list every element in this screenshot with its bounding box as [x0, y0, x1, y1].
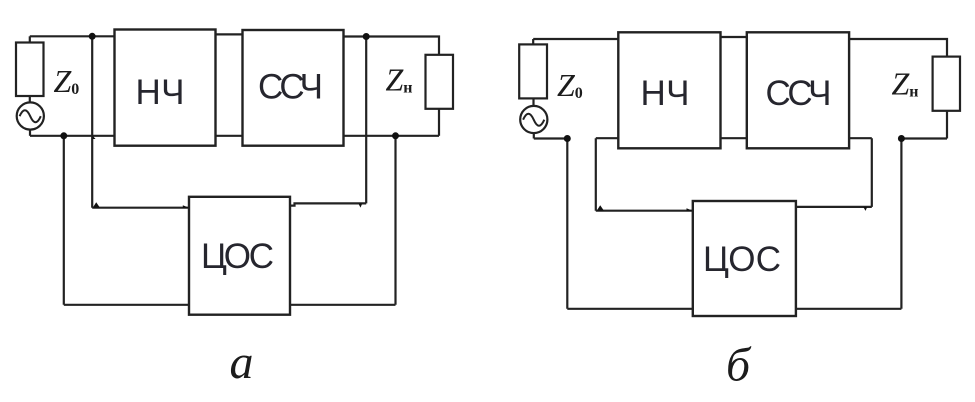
svg-text:ССЧ: ССЧ — [258, 68, 323, 107]
svg-text:а: а — [230, 336, 254, 389]
svg-text:б: б — [726, 339, 752, 392]
svg-text:ЦОС: ЦОС — [703, 240, 781, 279]
svg-text:НЧ: НЧ — [136, 73, 185, 112]
svg-text:ССЧ: ССЧ — [766, 74, 832, 113]
svg-text:ЦОС: ЦОС — [201, 237, 274, 276]
svg-text:НЧ: НЧ — [641, 74, 690, 113]
